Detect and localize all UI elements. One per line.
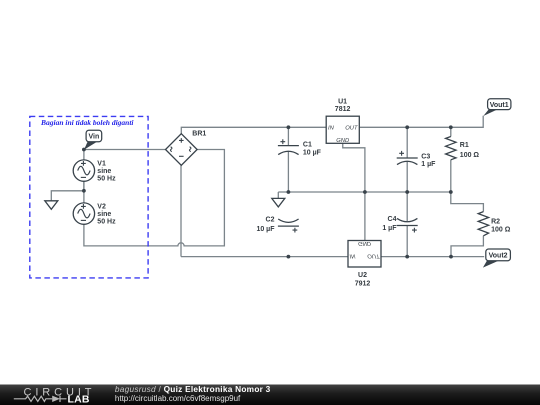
- svg-text:7812: 7812: [335, 106, 351, 113]
- svg-text:http://circuitlab.com/c6vf8ems: http://circuitlab.com/c6vf8emsgp9uf: [115, 394, 241, 403]
- svg-text:OUT: OUT: [345, 125, 358, 131]
- svg-text:Vin: Vin: [89, 134, 100, 141]
- svg-text:GND: GND: [336, 138, 349, 144]
- svg-text:7912: 7912: [355, 280, 371, 287]
- svg-text:1 µF: 1 µF: [421, 161, 436, 168]
- svg-text:10 µF: 10 µF: [256, 226, 275, 233]
- svg-text:IN: IN: [328, 125, 335, 131]
- svg-text:C1: C1: [303, 142, 312, 149]
- svg-text:LAB: LAB: [68, 393, 90, 405]
- svg-text:BR1: BR1: [192, 131, 206, 138]
- svg-text:C3: C3: [421, 153, 430, 160]
- svg-text:OUT: OUT: [367, 253, 380, 259]
- svg-text:Vout1: Vout1: [490, 102, 509, 109]
- svg-text:GND: GND: [358, 240, 371, 246]
- svg-text:R1: R1: [460, 142, 469, 149]
- svg-text:U2: U2: [358, 272, 367, 279]
- svg-text:50 Hz: 50 Hz: [97, 218, 116, 225]
- svg-text:sine: sine: [97, 168, 111, 175]
- svg-text:bagusrusd / Quiz Elektronika N: bagusrusd / Quiz Elektronika Nomor 3: [115, 384, 271, 394]
- svg-text:100 Ω: 100 Ω: [491, 227, 511, 234]
- svg-text:Vout2: Vout2: [489, 252, 508, 259]
- svg-text:C4: C4: [388, 216, 397, 223]
- svg-text:V1: V1: [97, 160, 106, 167]
- svg-text:100 Ω: 100 Ω: [460, 152, 480, 159]
- svg-text:1 µF: 1 µF: [382, 225, 397, 232]
- svg-text:U1: U1: [338, 98, 347, 105]
- svg-text:V2: V2: [97, 203, 106, 210]
- svg-text:sine: sine: [97, 211, 111, 218]
- svg-text:10 µF: 10 µF: [303, 149, 322, 156]
- svg-text:Bagian ini tidak boleh diganti: Bagian ini tidak boleh diganti: [40, 118, 134, 127]
- svg-text:C2: C2: [266, 217, 275, 224]
- svg-text:R2: R2: [491, 219, 500, 226]
- svg-text:50 Hz: 50 Hz: [97, 175, 116, 182]
- svg-text:IN: IN: [350, 253, 357, 259]
